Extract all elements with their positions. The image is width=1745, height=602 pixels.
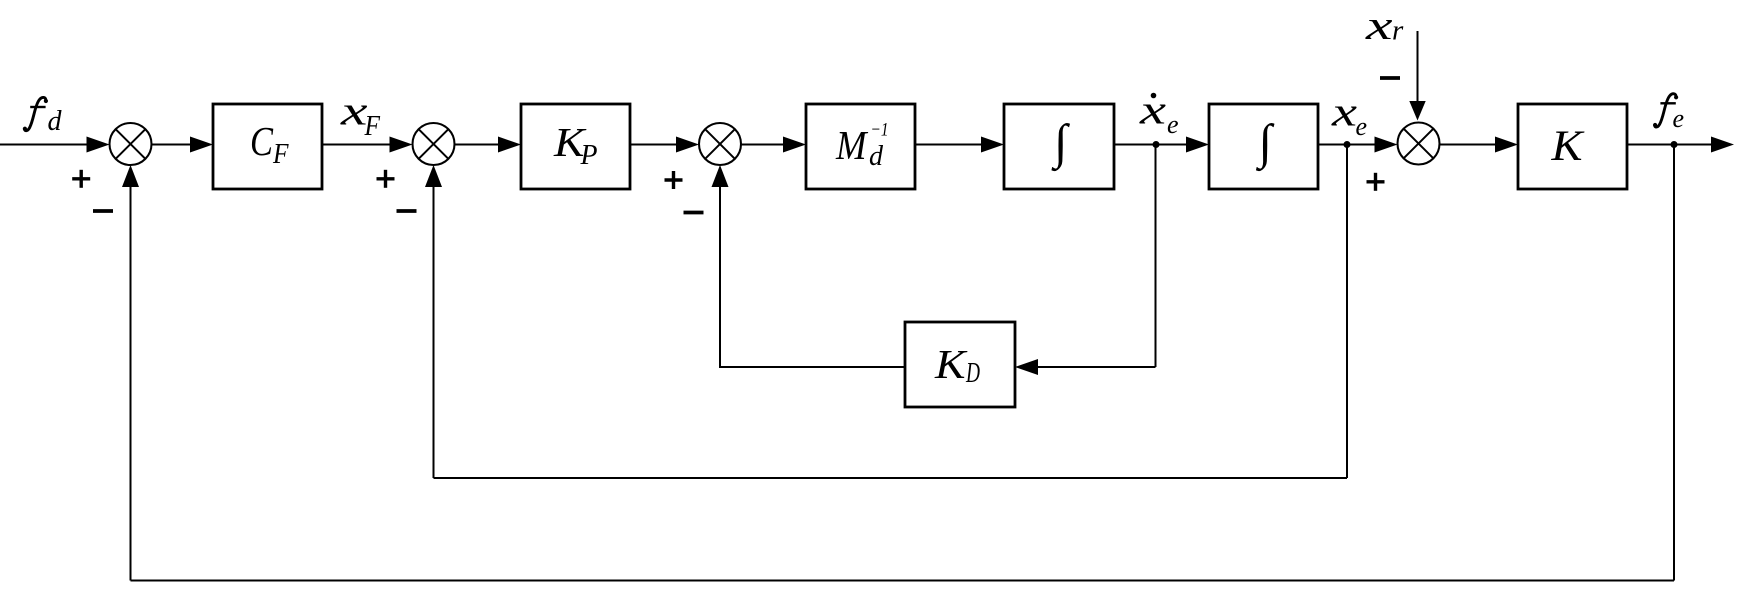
- arrowhead into C_F: [190, 137, 213, 153]
- label f_d: [23, 97, 63, 137]
- wire I2 to S4: [1318, 144, 1377, 146]
- plus label at S3: [665, 171, 683, 189]
- label x_e: [1331, 89, 1367, 142]
- wire input f_d: [0, 144, 88, 146]
- summing junction S2: [413, 123, 455, 165]
- minus label at S4: [1380, 76, 1400, 80]
- label xdot_e: [1139, 87, 1179, 140]
- arrowhead into K_D: [1015, 359, 1038, 375]
- arrowhead into summing junction S1: [87, 137, 110, 153]
- wire up to S2 bottom: [433, 187, 435, 478]
- wire xdot_e node down to K_D level: [1155, 145, 1157, 368]
- svg-text:e: e: [1673, 104, 1685, 133]
- plus label at S4: [1367, 173, 1385, 191]
- svg-text:d: d: [48, 106, 63, 137]
- arrowhead into I2: [1186, 137, 1209, 153]
- summing junction S3: [699, 123, 741, 165]
- svg-text:d: d: [869, 141, 884, 172]
- svg-text:K: K: [1550, 123, 1585, 170]
- svg-text:M: M: [835, 122, 869, 168]
- arrowhead into S2: [390, 137, 413, 153]
- block C_F: [213, 104, 322, 189]
- svg-text:−1: −1: [871, 120, 889, 141]
- label f_e: [1653, 94, 1684, 133]
- svg-text:r: r: [1392, 15, 1404, 47]
- minus label at S3: [684, 211, 704, 215]
- arrowhead into S3: [676, 137, 699, 153]
- wire x_r input vertical: [1417, 31, 1419, 101]
- svg-text:x: x: [340, 88, 368, 134]
- wire outer feedback horizontal: [131, 580, 1675, 582]
- node dot x_e: [1344, 141, 1351, 148]
- arrowhead into M_d: [783, 137, 806, 153]
- svg-text:e: e: [1167, 110, 1179, 139]
- minus label at S2: [397, 209, 417, 213]
- node dot xdot_e: [1153, 141, 1160, 148]
- wire middle feedback horizontal: [434, 477, 1348, 479]
- block M_d^-1: [806, 104, 915, 189]
- svg-text:∫: ∫: [1256, 114, 1276, 172]
- svg-text:P: P: [580, 139, 598, 171]
- arrowhead into K: [1495, 137, 1518, 153]
- summing junction S4: [1398, 123, 1440, 165]
- label x_r: [1365, 2, 1404, 48]
- svg-text:∫: ∫: [1051, 114, 1071, 172]
- block integrator I2: [1209, 104, 1318, 189]
- svg-text:C: C: [250, 118, 274, 164]
- arrowhead into S2 bottom: [425, 165, 442, 187]
- minus label at S1: [93, 209, 113, 213]
- svg-text:e: e: [1356, 112, 1368, 141]
- wire f_e node down: [1673, 145, 1675, 581]
- plus label at S1: [72, 170, 90, 188]
- arrowhead into I1: [981, 137, 1004, 153]
- label x_F: [340, 88, 381, 143]
- svg-text:F: F: [364, 110, 381, 142]
- svg-text:x: x: [1331, 89, 1357, 135]
- wire S1 to C_F: [152, 144, 193, 146]
- wire M_d to integrator I1: [915, 144, 983, 146]
- wire I1 to I2: [1114, 144, 1188, 146]
- arrowhead into S1 bottom: [122, 165, 139, 187]
- plus label at S2: [377, 170, 395, 188]
- arrowhead into K_P: [498, 137, 521, 153]
- wire K_D output to S3 bottom: [720, 187, 905, 367]
- node dot f_e: [1671, 141, 1678, 148]
- arrowhead into S3 bottom: [712, 165, 729, 187]
- svg-text:D: D: [965, 358, 980, 389]
- block K: [1518, 104, 1627, 189]
- wire x_e node down: [1346, 145, 1348, 479]
- wire K_P to S3: [630, 144, 678, 146]
- arrowhead into S4 top: [1409, 101, 1425, 121]
- wire K to output: [1627, 144, 1713, 146]
- arrowhead output: [1711, 137, 1734, 153]
- summing junction S1: [110, 123, 152, 165]
- svg-text:F: F: [272, 138, 289, 170]
- wire S4 to K: [1440, 144, 1498, 146]
- arrowhead into S4: [1375, 137, 1398, 153]
- wire into K_D right side: [1036, 366, 1156, 368]
- block K_P: [521, 104, 630, 189]
- wire C_F to S2: [322, 144, 391, 146]
- block K_D: [905, 322, 1015, 407]
- svg-text:x: x: [1365, 2, 1393, 48]
- wire S3 to M_d: [741, 144, 785, 146]
- svg-text:K: K: [934, 341, 969, 387]
- wire up to S1 bottom: [130, 187, 132, 581]
- wire S2 to K_P: [455, 144, 501, 146]
- block integrator I1: [1004, 104, 1114, 189]
